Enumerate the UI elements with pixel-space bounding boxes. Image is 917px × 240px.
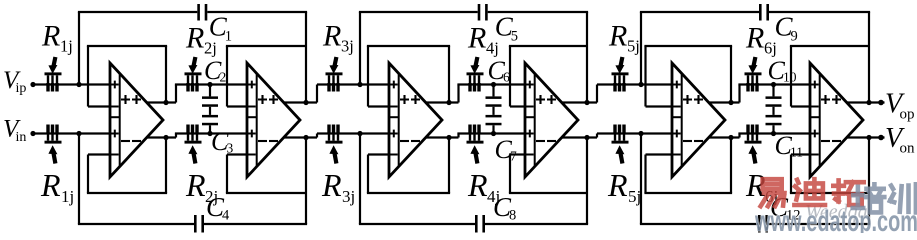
capacitor C7 plates bbox=[486, 115, 502, 118]
resistor R6j top gate bar bbox=[745, 72, 762, 75]
wire from stage1 jog to U3 in1 bbox=[317, 83, 389, 85]
wire U5 bottom feedback left bbox=[644, 155, 646, 194]
wire node to bottom rail bbox=[640, 134, 642, 225]
wire U5 bottom feedback right bbox=[730, 138, 732, 194]
resistor R5j bottom gate bar bbox=[612, 141, 629, 144]
capacitor C10 lead bbox=[772, 85, 774, 97]
resistor R5j bottom tuning arrow bbox=[620, 152, 622, 164]
wire U4 bottom jog bbox=[596, 134, 598, 138]
wire U3 top feedback right bbox=[448, 46, 450, 103]
op-amp U5 triangle bbox=[672, 63, 725, 177]
node U2 bottom output bbox=[303, 135, 308, 140]
watermark blue character xun bbox=[890, 184, 916, 212]
svg-text:6: 6 bbox=[503, 70, 510, 85]
wire U1 bottom jog bbox=[175, 134, 177, 138]
capacitor C4 bbox=[194, 215, 197, 233]
wire U2 top output bbox=[283, 101, 317, 103]
resistor R5j top tuning arrow bbox=[620, 57, 622, 68]
wire U2 top feedback left bbox=[226, 46, 228, 107]
node U4 bottom output bbox=[584, 135, 589, 140]
capacitor C2 lead bbox=[209, 85, 211, 97]
resistor R4j bottom tuning arrow bbox=[475, 152, 477, 164]
watermark blue character pei bbox=[853, 184, 885, 212]
wire U4 top jog bbox=[596, 85, 598, 103]
capacitor C9 bbox=[759, 4, 762, 21]
op-amp U4 input divider bar bbox=[534, 74, 536, 167]
wire node to bottom rail bbox=[359, 134, 361, 225]
svg-text:R: R bbox=[41, 20, 60, 53]
resistor R1j top tuning arrow bbox=[53, 57, 55, 68]
wire U2 bottom feedback left bbox=[226, 155, 228, 194]
resistor R3j top fingers bbox=[328, 75, 330, 84]
wire U4 in4 bbox=[510, 153, 525, 155]
node stage2 top input bbox=[357, 82, 362, 87]
watermark red character di bbox=[794, 179, 825, 205]
resistor R6j bottom gate bar bbox=[745, 141, 762, 144]
output terminal Vop bbox=[878, 100, 884, 106]
node C11 bbox=[771, 131, 776, 136]
svg-text:5: 5 bbox=[511, 29, 518, 45]
wire U6 bottom output to Von bbox=[846, 136, 885, 138]
svg-text:R: R bbox=[321, 167, 342, 203]
wire U1 top feedback right bbox=[165, 46, 167, 103]
svg-text:R: R bbox=[185, 22, 204, 55]
wire Vin to U1 in3 bbox=[33, 132, 110, 134]
watermark red character tuo bbox=[833, 180, 863, 205]
wire U1 bottom feedback right bbox=[165, 138, 167, 194]
op-amp U6 input divider bar bbox=[819, 74, 821, 167]
op-amp U6 triangle bbox=[810, 63, 863, 177]
wire U4 bottom output bbox=[561, 136, 597, 138]
wire U5 to U6 top bbox=[738, 83, 810, 85]
node U3 top output bbox=[446, 100, 451, 105]
wire top rail down to U2 output bbox=[305, 12, 307, 103]
op-amp U5 output polarity signs bbox=[683, 95, 692, 104]
op-amp U3 triangle bbox=[389, 63, 442, 177]
wire U2 top jog bbox=[316, 85, 318, 103]
wire U1 bottom output bbox=[146, 136, 176, 138]
output terminal Von bbox=[878, 135, 884, 141]
op-amp U4 output polarity signs bbox=[536, 95, 545, 104]
wire U6 bottom feedback rail bbox=[790, 192, 869, 194]
wire node to bottom rail bbox=[78, 134, 80, 225]
wire U2 in4 bbox=[227, 153, 247, 155]
wire U3 bottom jog bbox=[457, 134, 459, 138]
wire U3 to U4 bottom bbox=[457, 132, 525, 134]
wire U5 to U6 bottom bbox=[738, 132, 810, 134]
wire U5 bottom jog bbox=[738, 134, 740, 138]
wire U3 top feedback rail bbox=[367, 45, 450, 47]
resistor R5j top gate bar bbox=[612, 72, 629, 75]
wire U3 bottom output bbox=[425, 136, 459, 138]
resistor R4j bottom gate bar bbox=[467, 141, 484, 144]
resistor R3j top gate bar bbox=[326, 72, 343, 75]
wire top rail C9 right bbox=[769, 11, 870, 13]
op-amp U2 input divider bar bbox=[256, 74, 258, 167]
capacitor C11 plates bbox=[766, 115, 782, 118]
resistor R6j top tuning arrow bbox=[753, 57, 755, 68]
op-amp U2 input polarity signs bbox=[248, 81, 256, 89]
resistor R1j bottom fingers bbox=[47, 132, 49, 141]
wire U6 in4 bbox=[791, 153, 810, 155]
wire U4 top output bbox=[561, 101, 597, 103]
capacitor C6 lead bbox=[492, 85, 494, 97]
wire U1 top jog bbox=[175, 85, 177, 103]
wire U5 top jog bbox=[738, 85, 740, 103]
wire node to top rail bbox=[78, 12, 80, 85]
svg-text:R: R bbox=[467, 167, 488, 203]
wire bottom rail C12 right bbox=[768, 223, 870, 225]
wire U5 bottom feedback rail bbox=[644, 192, 732, 194]
wire top rail C1 left bbox=[78, 11, 197, 13]
resistor R1j top gate bar bbox=[45, 72, 62, 75]
wire U4 top feedback rail bbox=[509, 45, 587, 47]
wire U6 in2 bbox=[791, 105, 810, 107]
op-amp U1 triangle bbox=[110, 63, 163, 177]
wire U1 top feedback rail bbox=[87, 45, 167, 47]
op-amp U4 triangle bbox=[525, 63, 578, 177]
svg-text:3: 3 bbox=[227, 141, 234, 156]
svg-text:10: 10 bbox=[783, 70, 797, 85]
node U4 top output bbox=[584, 100, 589, 105]
wire U3 in4 bbox=[368, 153, 389, 155]
svg-text:op: op bbox=[900, 107, 915, 123]
capacitor C7 lead bbox=[492, 125, 494, 133]
input terminal Vip bbox=[30, 82, 35, 87]
resistor R1j top fingers bbox=[47, 75, 49, 84]
wire U1 in4 bbox=[88, 153, 110, 155]
resistor R1j bottom tuning arrow bbox=[53, 152, 55, 164]
node U6 top output bbox=[866, 100, 871, 105]
wire C6-C7 link bbox=[492, 107, 494, 115]
wire U5 top feedback right bbox=[730, 46, 732, 103]
wire U1 in2 bbox=[88, 105, 110, 107]
node C6 bbox=[491, 82, 496, 87]
node C10 bbox=[771, 82, 776, 87]
svg-text:ip: ip bbox=[16, 81, 27, 96]
wire U1 bottom feedback rail bbox=[87, 192, 167, 194]
svg-text:R: R bbox=[40, 167, 61, 203]
svg-text:1j: 1j bbox=[61, 187, 74, 206]
wire node to top rail bbox=[359, 12, 361, 85]
svg-text:www.edatop.com: www.edatop.com bbox=[754, 205, 917, 233]
svg-text:5j: 5j bbox=[628, 187, 641, 206]
op-amp U2 triangle bbox=[247, 63, 300, 177]
wire top rail down to U6 output bbox=[868, 12, 870, 103]
resistor R3j bottom tuning arrow bbox=[334, 152, 336, 164]
svg-text:1: 1 bbox=[225, 29, 232, 45]
wire bottom rail up to U2 output bbox=[305, 138, 307, 225]
wire bottom rail C8 left bbox=[359, 223, 475, 225]
op-amp U1 input polarity signs bbox=[111, 81, 119, 89]
op-amp U3 output polarity signs bbox=[400, 95, 409, 104]
input terminal Vin bbox=[30, 131, 35, 136]
wire U4 bottom feedback left bbox=[509, 155, 511, 194]
op-amp U1 output polarity signs bbox=[121, 95, 130, 104]
node U1 top output bbox=[163, 100, 168, 105]
wire U3 in2 bbox=[368, 105, 389, 107]
wire bottom rail C8 right bbox=[485, 223, 588, 225]
wire U1 to U2 bottom bbox=[175, 132, 247, 134]
resistor R3j bottom gate bar bbox=[326, 141, 343, 144]
svg-text:R: R bbox=[185, 167, 206, 203]
wire U3 bottom feedback rail bbox=[367, 192, 450, 194]
wire U2 bottom output bbox=[283, 136, 317, 138]
wire U3 top output bbox=[425, 101, 459, 103]
wire node to top rail bbox=[640, 12, 642, 85]
wire U5 in2 bbox=[646, 105, 673, 107]
resistor R4j top tuning arrow bbox=[475, 57, 477, 68]
op-amp U4 input polarity signs bbox=[526, 81, 534, 89]
wire U6 top feedback rail bbox=[790, 45, 869, 47]
resistor R4j top fingers bbox=[469, 75, 471, 84]
capacitor C6 plates bbox=[486, 96, 502, 99]
wire U2 bottom jog bbox=[316, 134, 318, 138]
node stage3 top input bbox=[638, 82, 643, 87]
wire U3 bottom feedback right bbox=[448, 138, 450, 194]
svg-text:R: R bbox=[745, 22, 764, 55]
svg-text:11: 11 bbox=[790, 145, 803, 160]
wire bottom rail up to U4 output bbox=[586, 138, 588, 225]
resistor R2j bottom fingers bbox=[187, 132, 189, 141]
wire top rail down to U4 output bbox=[586, 12, 588, 103]
wire C2-C3 link bbox=[209, 107, 211, 115]
resistor R2j bottom tuning arrow bbox=[193, 152, 195, 164]
svg-text:5j: 5j bbox=[627, 37, 640, 56]
resistor R3j top tuning arrow bbox=[334, 57, 336, 68]
wire U1 top output bbox=[146, 101, 176, 103]
svg-text:7: 7 bbox=[510, 149, 517, 164]
wire U4 top feedback left bbox=[509, 46, 511, 107]
wire U3 bottom feedback left bbox=[367, 155, 369, 194]
node stage1 top input bbox=[76, 82, 81, 87]
wire top rail C5 left bbox=[359, 11, 478, 13]
svg-text:R: R bbox=[467, 22, 486, 55]
op-amp U6 output polarity signs bbox=[821, 95, 830, 104]
svg-text:3j: 3j bbox=[342, 187, 355, 206]
watermark red character yi bbox=[761, 179, 785, 206]
wire bottom rail C12 left bbox=[640, 223, 758, 225]
svg-text:on: on bbox=[900, 141, 916, 157]
capacitor C5 bbox=[478, 4, 481, 21]
wire U5 bottom output bbox=[708, 136, 740, 138]
op-amp U5 input polarity signs bbox=[673, 81, 681, 89]
svg-text:R: R bbox=[608, 20, 627, 53]
wire U5 top feedback left bbox=[644, 46, 646, 107]
resistor R6j bottom tuning arrow bbox=[753, 152, 755, 164]
op-amp U3 input polarity signs bbox=[390, 81, 398, 89]
svg-text:9: 9 bbox=[791, 29, 798, 45]
wire U4 bottom feedback rail bbox=[509, 192, 587, 194]
resistor R5j bottom fingers bbox=[614, 132, 616, 141]
capacitor C8 bbox=[475, 215, 478, 233]
wire U5 top output bbox=[708, 101, 740, 103]
wire U3 top feedback left bbox=[367, 46, 369, 107]
wire top rail C1 right bbox=[207, 11, 307, 13]
wire from stage1 jog to U3 in3 bbox=[317, 132, 389, 134]
svg-text:3j: 3j bbox=[341, 37, 354, 56]
op-amp U1 input divider bar bbox=[119, 74, 121, 167]
wire U2 in2 bbox=[227, 105, 247, 107]
wire U3 to U4 top bbox=[457, 83, 525, 85]
wire U4 in2 bbox=[510, 105, 525, 107]
wire U6 top feedback left bbox=[790, 46, 792, 107]
svg-text:4: 4 bbox=[222, 208, 230, 224]
svg-text:R: R bbox=[322, 20, 341, 53]
resistor R2j top tuning arrow bbox=[193, 57, 195, 68]
wire bottom rail C4 left bbox=[78, 223, 194, 225]
node U3 bottom output bbox=[446, 135, 451, 140]
wire U1 to U2 top bbox=[175, 83, 247, 85]
wire from stage2 jog to U5 in1 bbox=[597, 83, 672, 85]
capacitor C12 bbox=[758, 215, 761, 233]
node C7 bbox=[491, 131, 496, 136]
op-amp U5 input divider bar bbox=[681, 74, 683, 167]
resistor R3j bottom fingers bbox=[328, 132, 330, 141]
node U6 bottom output bbox=[866, 135, 871, 140]
wire U3 top jog bbox=[457, 85, 459, 103]
node stage3 bottom input bbox=[638, 131, 643, 136]
capacitor C3 lead bbox=[209, 125, 211, 133]
op-amp U2 output polarity signs bbox=[258, 95, 267, 104]
capacitor C1 bbox=[197, 4, 200, 21]
wire Vip to U1 in1 bbox=[33, 83, 110, 85]
resistor R1j bottom gate bar bbox=[45, 141, 62, 144]
node stage1 bottom input bbox=[76, 131, 81, 136]
node C2 bbox=[207, 82, 212, 87]
capacitor C3 plates bbox=[202, 115, 218, 118]
capacitor C2 plates bbox=[202, 96, 218, 99]
resistor R6j top fingers bbox=[747, 75, 749, 84]
wire U5 top feedback rail bbox=[644, 45, 732, 47]
wire U2 top feedback rail bbox=[226, 45, 306, 47]
node stage2 bottom input bbox=[357, 131, 362, 136]
wire C10-C11 link bbox=[772, 107, 774, 115]
wire U6 bottom feedback left bbox=[790, 155, 792, 194]
resistor R6j bottom fingers bbox=[747, 132, 749, 141]
wire U1 top feedback left bbox=[87, 46, 89, 107]
node U2 top output bbox=[303, 100, 308, 105]
op-amp U3 input divider bar bbox=[398, 74, 400, 167]
resistor R4j bottom fingers bbox=[469, 132, 471, 141]
svg-text:1j: 1j bbox=[60, 37, 73, 56]
wire bottom rail C4 right bbox=[204, 223, 307, 225]
svg-text:8: 8 bbox=[509, 208, 516, 224]
svg-text:2: 2 bbox=[220, 70, 227, 85]
resistor R2j top gate bar bbox=[185, 72, 202, 75]
wire U5 in4 bbox=[646, 153, 673, 155]
wire bottom rail up to U6 output bbox=[868, 138, 870, 225]
wire U6 top output to Vop bbox=[846, 101, 885, 103]
capacitor C10 plates bbox=[766, 96, 782, 99]
svg-text:R: R bbox=[607, 167, 628, 203]
op-amp U6 input polarity signs bbox=[811, 81, 819, 89]
wire top rail C5 right bbox=[488, 11, 588, 13]
resistor R2j bottom gate bar bbox=[185, 141, 202, 144]
wire U1 bottom feedback left bbox=[87, 155, 89, 194]
resistor R4j top gate bar bbox=[467, 72, 484, 75]
node U1 bottom output bbox=[163, 135, 168, 140]
wire top rail C9 left bbox=[640, 11, 759, 13]
capacitor C11 lead bbox=[772, 125, 774, 133]
wire U2 bottom feedback rail bbox=[226, 192, 306, 194]
node U5 bottom output bbox=[728, 135, 733, 140]
node U5 top output bbox=[728, 100, 733, 105]
resistor R2j top fingers bbox=[187, 75, 189, 84]
resistor R5j top fingers bbox=[614, 75, 616, 84]
svg-text:in: in bbox=[16, 130, 27, 145]
wire from stage2 jog to U5 in3 bbox=[597, 132, 672, 134]
node C3 bbox=[207, 131, 212, 136]
